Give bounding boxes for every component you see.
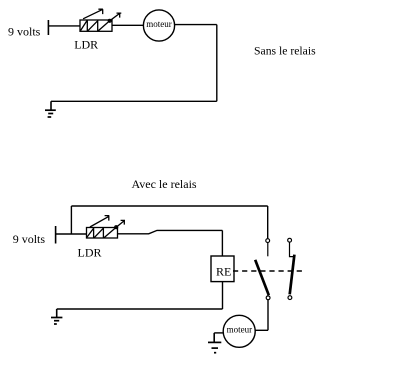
- wire: motor to right: [175, 24, 217, 26]
- svg-text:Sans le relais: Sans le relais: [254, 44, 316, 57]
- switch S2 top contact: [288, 238, 292, 242]
- svg-text:Avec le relais: Avec le relais: [132, 177, 197, 191]
- wire: top branch horizontal: [71, 205, 267, 207]
- wire: bottom rail: [57, 308, 223, 310]
- wire: drop into relay coil: [221, 230, 223, 256]
- ground (motor, bottom circuit): [208, 342, 221, 352]
- wire: drop to motor ground: [213, 333, 215, 343]
- wire: LDR to relay (with hand-drawn jog): [118, 230, 223, 233]
- svg-text:LDR: LDR: [74, 38, 98, 52]
- LDR arrow 2 (top, through corner dot): [108, 13, 121, 22]
- wire: right vertical: [216, 25, 218, 102]
- switch S1 top contact: [266, 239, 270, 243]
- relay actuation dashed link: [233, 270, 305, 272]
- switch S2 arm: [290, 255, 295, 295]
- switch S1 arm (open): [255, 260, 269, 295]
- ground (top circuit): [45, 110, 56, 117]
- wire: top branch drop to switch S1: [267, 206, 269, 238]
- svg-text:moteur: moteur: [146, 19, 172, 29]
- wire: bottom horizontal: [51, 100, 217, 102]
- svg-text:RE: RE: [216, 265, 231, 279]
- svg-text:9 volts: 9 volts: [8, 25, 41, 39]
- motor M1: [143, 10, 174, 41]
- wire: relay coil to bottom rail: [222, 282, 224, 309]
- wire: drop to ground (bottom-left): [56, 309, 58, 318]
- battery terminal tick (bottom): [55, 226, 57, 244]
- svg-text:9 volts: 9 volts: [13, 232, 46, 246]
- wire: terminal to LDR (bottom): [56, 233, 87, 235]
- LDR arrow 1 (bottom): [90, 216, 109, 227]
- LDR arrow 1 (top): [83, 9, 103, 19]
- switch S1 fixed stub: [267, 243, 269, 256]
- wire: motor left to ground: [214, 332, 223, 334]
- svg-text:LDR: LDR: [78, 245, 102, 259]
- relay coil RE: [211, 256, 234, 282]
- wire: terminal to LDR: [48, 25, 80, 27]
- battery terminal tick (top): [47, 20, 49, 35]
- switch S2 bottom contact: [288, 296, 292, 300]
- switch S2 fixed stub: [290, 242, 295, 256]
- wire: S1 bottom to motor level: [267, 300, 269, 331]
- wire: drop to ground (top circuit): [50, 101, 52, 110]
- resistor LDR (top) body: [80, 20, 112, 31]
- svg-text:moteur: moteur: [227, 325, 253, 335]
- wire: LDR to motor: [112, 24, 144, 26]
- motor M2: [223, 315, 255, 347]
- ground (bottom-left): [51, 318, 62, 325]
- resistor LDR (bottom) body: [87, 227, 118, 238]
- LDR arrow 2 (bottom, through corner dot): [115, 220, 125, 228]
- wire: to motor right side: [255, 329, 268, 331]
- wire: junction riser: [70, 206, 72, 234]
- switch S1 bottom contact: [266, 296, 270, 300]
